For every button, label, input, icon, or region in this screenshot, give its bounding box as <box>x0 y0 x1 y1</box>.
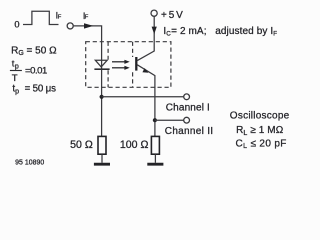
node A: LED cathode / Channel I junction <box>100 95 104 99</box>
phototransistor base bar <box>135 57 137 71</box>
phototransistor collector wire to +5V <box>137 16 154 60</box>
LED triangle <box>95 60 107 67</box>
wire resistor 50 to ground <box>101 154 103 163</box>
optocoupler dashed box <box>86 42 171 88</box>
Channel I terminal <box>184 94 190 100</box>
inner dashed separator left <box>107 42 109 88</box>
light arrow 1 <box>112 61 125 63</box>
svg-text:Channel I: Channel I <box>166 103 210 114</box>
wire input terminal to LED anode <box>74 26 102 69</box>
svg-text:= 50 μs: = 50 μs <box>25 84 56 95</box>
node B: emitter / Channel II junction <box>153 118 157 122</box>
phototransistor emitter wire <box>137 65 155 137</box>
input terminal <box>67 23 73 29</box>
IC current arrow (down) <box>152 27 157 35</box>
svg-text:Oscilloscope: Oscilloscope <box>230 111 290 122</box>
pulse source waveform <box>23 11 59 24</box>
svg-text:p: p <box>15 63 19 70</box>
svg-text:F: F <box>58 14 62 20</box>
resistor 50 ohm <box>98 136 106 154</box>
IF current arrow <box>84 23 93 28</box>
emitter arrowhead <box>142 68 148 73</box>
Channel II terminal <box>184 117 190 123</box>
fraction bar <box>10 70 22 72</box>
ground right <box>147 163 163 166</box>
svg-text:RG = 50 Ω: RG = 50 Ω <box>11 45 57 57</box>
svg-text:RL ≥ 1 MΩ: RL ≥ 1 MΩ <box>236 125 284 137</box>
svg-text:+ 5 V: + 5 V <box>161 10 183 21</box>
wire to Channel II terminal <box>155 119 184 121</box>
svg-text:95 10890: 95 10890 <box>15 159 44 166</box>
+5V terminal <box>151 10 157 16</box>
resistor 100 ohm <box>151 136 159 154</box>
LED cathode bar <box>94 68 109 70</box>
svg-text:50 Ω: 50 Ω <box>70 139 93 151</box>
svg-text:=0.01: =0.01 <box>25 66 47 77</box>
wire resistor 100 to ground <box>154 154 156 163</box>
light arrow 2 <box>112 67 125 69</box>
svg-text:T: T <box>12 73 18 84</box>
svg-text:0: 0 <box>14 20 19 30</box>
svg-text:F: F <box>85 15 89 21</box>
svg-text:100 Ω: 100 Ω <box>120 139 149 151</box>
svg-text:IC= 2 mA; adjusted by IF: IC= 2 mA; adjusted by IF <box>163 26 277 38</box>
svg-text:Channel II: Channel II <box>165 126 214 137</box>
LED cathode wire <box>101 69 103 136</box>
ground left <box>94 163 110 166</box>
inner dashed separator right <box>132 42 134 88</box>
wire to Channel I terminal <box>102 96 184 98</box>
